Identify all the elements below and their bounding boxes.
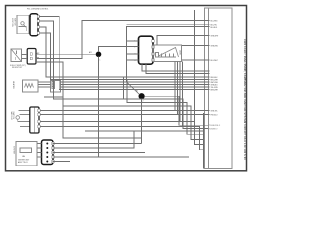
wire C1 pin1: [39, 17, 210, 90]
svg-text:ASSY TR-01: ASSY TR-01: [18, 161, 28, 164]
svg-text:IGNITER: IGNITER: [13, 146, 15, 155]
wire C5 pin2: [53, 131, 135, 148]
svg-text:YEL-GRN: YEL-GRN: [211, 87, 219, 89]
ignition switch ISW box: [17, 15, 31, 34]
wire branch x123: [123, 77, 125, 99]
svg-text:BRN-WHT: BRN-WHT: [211, 89, 219, 91]
igniter box: [16, 142, 37, 166]
connector C2 (fuel pump): [27, 49, 36, 65]
svg-text:RED-BLK: RED-BLK: [211, 77, 219, 79]
wire y106 staircase D: [63, 106, 204, 139]
wires igniter to C5: [37, 144, 42, 158]
svg-text:RED-WHT: RED-WHT: [211, 79, 219, 81]
junction dot J2: [139, 93, 145, 99]
svg-text:HEATER: HEATER: [12, 81, 15, 89]
wire y131: [85, 130, 204, 132]
svg-text:GRN-WHT: GRN-WHT: [211, 35, 219, 37]
wire C4 pin2: [40, 114, 209, 116]
wire carb y60: [182, 59, 210, 61]
wire heater pin3: [61, 86, 210, 88]
wire C4 pin4 staircase F: [40, 127, 203, 150]
wire J2 staircase A: [145, 96, 209, 125]
border frame: [6, 6, 247, 171]
wire y157 tail: [99, 156, 190, 158]
wire C4 pin3: [40, 121, 194, 123]
wire carb bottom pin A: [174, 62, 176, 111]
wire y35.5: [157, 36, 210, 46]
wire heater pin1: [61, 81, 210, 83]
wire C2 pin2 over the top: [36, 21, 210, 59]
wire C1 pin4: [39, 33, 210, 80]
wire C4 pin1: [40, 110, 209, 112]
svg-text:IGNITION: IGNITION: [11, 18, 13, 27]
svg-text:FIG. 24 ENGINE CONTROL: FIG. 24 ENGINE CONTROL: [27, 9, 48, 11]
svg-text:TO IGN COIL C: TO IGN COIL C: [209, 125, 221, 127]
wire y24.7 stub: [127, 24, 210, 26]
connector C4: [30, 107, 39, 133]
wire top corner x126: [127, 26, 210, 82]
wire branch x127 staircase C: [127, 80, 204, 135]
wire carb bottom pin C: [179, 62, 181, 122]
wire C6 bottom pin b: [146, 64, 210, 73]
svg-text:RESISTOR: RESISTOR: [12, 67, 23, 69]
wire carb bottom pin B: [177, 62, 179, 115]
wire carb box right y45: [182, 45, 210, 47]
svg-text:1: 1: [100, 60, 101, 62]
svg-text:TO DIST LT: TO DIST LT: [209, 128, 217, 130]
wire J1 up to C6: [99, 47, 139, 52]
svg-text:BLK-YEL: BLK-YEL: [211, 25, 218, 27]
wire y97: [44, 96, 63, 98]
svg-text:SWITCH: SWITCH: [14, 18, 16, 26]
wire J2 down to igniter: [141, 99, 143, 144]
svg-text:BLU-WHT: BLU-WHT: [211, 60, 218, 62]
wire long vertical staircase E: [195, 10, 204, 145]
svg-text:BLU-RED: BLU-RED: [211, 20, 219, 22]
wire carb bottom pin D: [182, 62, 184, 127]
wires heater to C3: [38, 82, 51, 87]
heater resistor box: [23, 80, 39, 92]
fuel pump symbol: [11, 49, 22, 62]
wire C6 feeds: [127, 40, 139, 42]
wire J1 down to C5: [53, 57, 99, 157]
connector block (right tall box): [205, 8, 233, 169]
vacuum switch symbol: [16, 111, 30, 127]
svg-text:1990 CALIF: FUEL PUMP, CARBURE: 1990 CALIF: FUEL PUMP, CARBURETOR AND IG…: [243, 39, 246, 160]
wire C2 pin1 to J1: [36, 53, 96, 55]
wire C5 pin3: [53, 152, 146, 154]
wire C5 pin1: [53, 143, 142, 145]
wire C1 pin2 staircase B: [39, 21, 208, 129]
svg-text:SWITCH: SWITCH: [12, 112, 14, 120]
svg-text:PNK-BLU: PNK-BLU: [211, 114, 219, 116]
wire C6 bottom pin a: [142, 64, 210, 71]
svg-text:BLU-BLK: BLU-BLK: [211, 27, 219, 29]
wire heater pin2: [61, 84, 210, 86]
connector C3: [51, 81, 61, 93]
wire fuel pump to connector: [22, 55, 28, 59]
right stub labels: [209, 20, 221, 130]
wire C1 pin3: [39, 27, 210, 77]
connector C6 (carburetor): [139, 36, 154, 64]
wire C2 pin3: [36, 62, 142, 138]
connector C1 (ignition switch): [30, 14, 38, 36]
junction dot J1: [96, 52, 102, 58]
svg-text:WHT-RED: WHT-RED: [211, 82, 219, 84]
carburetor box: [153, 45, 182, 62]
connector C5: [42, 140, 54, 165]
svg-text:GRN-RED: GRN-RED: [211, 45, 219, 47]
wire (dark vertical at box left, lower): [203, 113, 205, 169]
svg-text:GRN-YEL: GRN-YEL: [211, 110, 218, 112]
wire diagonal to J2: [127, 82, 140, 95]
svg-text:GRN-BLK: GRN-BLK: [211, 84, 219, 86]
